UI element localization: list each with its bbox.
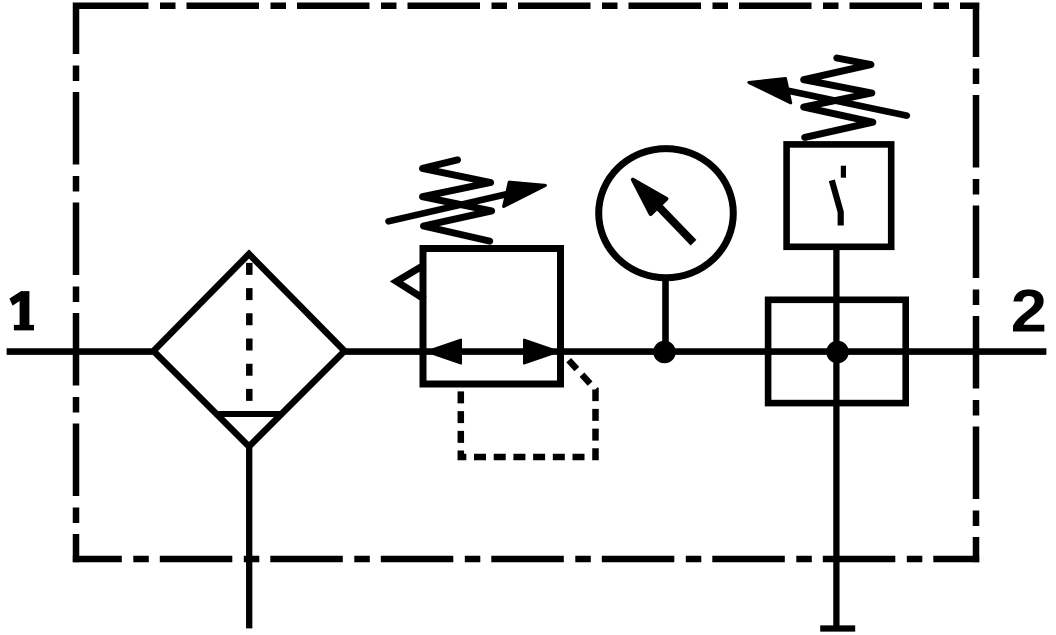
gauge needle arrowhead xyxy=(633,180,667,214)
regulator pilot dashed feedback xyxy=(461,355,596,457)
regulator spring xyxy=(423,160,492,241)
junction node at branch block xyxy=(826,341,849,364)
gauge G1 stem xyxy=(662,278,669,352)
svg-text:2: 2 xyxy=(1011,278,1047,345)
filter dashed centerline xyxy=(246,257,253,417)
switch adjuster arrowhead xyxy=(749,79,791,103)
label port 2 xyxy=(1011,278,1047,345)
label port 1 xyxy=(9,291,34,330)
wire: vertical branch through block xyxy=(833,247,839,626)
wire: condensate drain xyxy=(246,447,252,629)
enclosure border bottom edge xyxy=(73,556,980,563)
regulator left arrowhead xyxy=(426,340,461,364)
switch contact tick xyxy=(841,166,846,178)
branch block B1 on main line xyxy=(768,300,906,403)
wire: main line port 1 to port 2 xyxy=(7,348,1047,355)
pressure switch S1 body xyxy=(787,144,892,246)
regulator flow line xyxy=(426,348,558,355)
regulator R1 body xyxy=(423,249,561,385)
regulator relief triangle xyxy=(397,265,426,300)
enclosure border left edge xyxy=(73,2,80,562)
switch spring xyxy=(804,58,873,137)
regulator adjuster arrowhead xyxy=(504,182,546,206)
filter F1 body (diamond) xyxy=(154,254,345,447)
filter separator line xyxy=(215,411,284,417)
junction node at gauge xyxy=(653,341,676,364)
enclosure border right edge xyxy=(973,2,980,562)
enclosure border top edge xyxy=(73,2,980,9)
gauge G1 dial xyxy=(599,149,734,278)
switch adjuster arrow shaft xyxy=(787,90,907,115)
regulator right arrowhead xyxy=(524,340,559,364)
exhaust end tick xyxy=(820,625,855,631)
regulator adjuster arrow shaft xyxy=(389,194,509,221)
switch lever xyxy=(832,180,841,225)
gauge needle shaft xyxy=(659,206,694,242)
